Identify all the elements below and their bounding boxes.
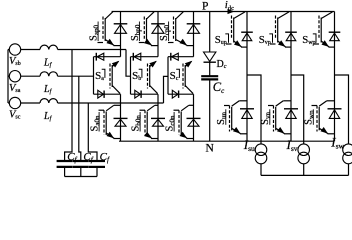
- label C_f 2: [83, 151, 93, 164]
- label L_f phase c: [43, 111, 53, 122]
- wire leg3 middle upper: [168, 56, 194, 58]
- wire source sb to inductor: [21, 49, 40, 51]
- diode leg3 top: [187, 24, 201, 34]
- capacitor C_f 3: [89, 161, 105, 167]
- label S_c: [170, 69, 180, 82]
- wire source sc to inductor: [21, 102, 40, 104]
- capacitor C_c: [201, 76, 218, 79]
- wire invleg2 output jog: [291, 75, 304, 145]
- igbt S_a0n: [99, 105, 121, 138]
- igbt S_ap0: [98, 12, 121, 46]
- inductor L_f phase a: [40, 72, 58, 76]
- voltage source V_sc: [9, 97, 20, 108]
- wire invleg1 output jog: [247, 75, 261, 145]
- diode invleg1 bottom: [240, 109, 254, 119]
- label P: [202, 0, 208, 12]
- diode leg2 top: [151, 24, 165, 34]
- diode invleg3 bottom: [328, 109, 342, 119]
- label S_bp0: [130, 22, 142, 42]
- label S_wn: [304, 109, 316, 125]
- igbt S_wn: [312, 101, 335, 134]
- diode leg2 middle upper: [133, 53, 141, 61]
- diode invleg2 top: [285, 32, 297, 41]
- current source I_su: [255, 144, 267, 164]
- label S_vp: [259, 34, 273, 47]
- capacitor C_f 1: [57, 161, 73, 167]
- wire phase c line: [58, 102, 164, 104]
- voltage source V_sa: [9, 71, 20, 82]
- label N: [206, 143, 215, 155]
- wire leg3 middle lower: [168, 93, 194, 95]
- diode D_c: [204, 52, 216, 62]
- wire cap tap phase a: [79, 76, 81, 160]
- label S_cp0: [159, 22, 171, 42]
- wire cap 3 bottom stub: [96, 168, 98, 177]
- wire invleg3 output jog: [335, 75, 349, 145]
- igbt S_wp: [314, 12, 335, 47]
- wire leg3 column bottom: [193, 94, 195, 141]
- diode leg3 bottom: [187, 118, 201, 126]
- label D_c: [217, 59, 227, 70]
- igbt S_un: [224, 101, 247, 134]
- label S_wp: [302, 34, 316, 47]
- wire source sa to inductor: [21, 75, 40, 77]
- wire cap 1 bottom stub: [64, 168, 66, 177]
- label C_f 1: [67, 151, 77, 164]
- wire cap 2 bottom stub: [80, 168, 82, 177]
- wire invleg1 column: [246, 12, 248, 142]
- wire phase b line: [58, 49, 126, 51]
- label S_c0n: [165, 112, 177, 132]
- wire load bottom rail: [261, 174, 349, 176]
- wire leg2 middle lower: [131, 93, 159, 95]
- wire leg2 middle left vertical: [130, 57, 132, 94]
- node P top rail: [112, 11, 335, 13]
- current idc arrow: [228, 9, 235, 14]
- igbt S_a: [110, 61, 120, 94]
- voltage source V_sb: [9, 44, 20, 55]
- diode invleg1 top: [241, 32, 253, 41]
- igbt S_c: [183, 61, 193, 94]
- igbt S_c0n: [174, 105, 194, 138]
- wire leg1 middle lower: [94, 93, 121, 95]
- current source I_sw: [343, 144, 352, 164]
- label S_up: [215, 34, 229, 47]
- wire leg1 column bottom: [120, 94, 122, 141]
- label V_sa: [9, 83, 21, 94]
- wire leg2 middle upper: [131, 56, 159, 58]
- wire cap tap phase b: [65, 50, 72, 161]
- diode leg2 middle lower: [135, 90, 141, 98]
- wire leg1 middle upper: [94, 56, 121, 58]
- igbt S_vp: [270, 12, 291, 47]
- igbt S_bp0: [139, 12, 158, 46]
- label S_b: [132, 69, 142, 82]
- wire filter cap star bar: [65, 176, 97, 178]
- wire load sv bottom stub: [303, 164, 305, 176]
- label I_su: [243, 137, 255, 153]
- diode invleg2 bottom: [284, 109, 298, 119]
- label S_un: [216, 109, 228, 125]
- wire leg2 column bottom: [157, 94, 159, 141]
- inductor L_f phase b: [40, 45, 58, 49]
- wire phase b jog down to leg2: [126, 50, 131, 77]
- wire load su bottom stub: [260, 164, 262, 176]
- node N bottom rail: [119, 140, 335, 142]
- label V_sb: [9, 56, 21, 67]
- wire leg3 middle left vertical: [167, 57, 169, 94]
- igbt S_b0n: [140, 105, 159, 138]
- label S_vn: [260, 109, 272, 125]
- diode leg1 middle lower: [98, 90, 104, 98]
- diode leg1 bottom: [114, 118, 128, 126]
- wire leg1 column top: [120, 12, 122, 57]
- wire phase c jog up to leg3: [164, 76, 169, 103]
- diode leg1 middle upper: [96, 53, 104, 61]
- label S_b0n: [131, 112, 143, 132]
- svg-text:P: P: [202, 0, 208, 12]
- label C_f 3: [100, 151, 110, 164]
- wire left source bus: [8, 50, 9, 104]
- label V_sc: [9, 110, 21, 121]
- current source I_sv: [298, 144, 310, 164]
- diode invleg3 top: [329, 32, 341, 41]
- label i_dc: [225, 0, 234, 11]
- diode leg1 top: [114, 24, 128, 34]
- igbt S_vn: [268, 101, 291, 134]
- wire invleg2 column: [290, 12, 292, 142]
- igbt S_cp0: [168, 12, 194, 46]
- wire phase a line: [58, 75, 94, 77]
- capacitor C_f 2: [73, 161, 89, 167]
- diode leg2 bottom: [151, 118, 165, 126]
- wire invleg3 column: [334, 12, 336, 142]
- diode leg3 middle upper: [171, 53, 179, 61]
- inductor L_f phase c: [40, 99, 58, 103]
- label C_c: [213, 80, 225, 95]
- label I_sw: [330, 135, 344, 151]
- wire clamp branch: [209, 12, 211, 142]
- wire load sw bottom stub: [348, 164, 350, 176]
- label L_f phase b: [43, 58, 53, 69]
- igbt S_b: [148, 61, 158, 94]
- label S_a: [95, 69, 105, 82]
- label S_a0n: [90, 112, 102, 132]
- svg-text:N: N: [206, 143, 215, 155]
- label S_ap0: [89, 22, 101, 42]
- label I_sv: [286, 137, 298, 153]
- wire cap tap phase c: [88, 103, 97, 160]
- wire leg3 column top: [193, 12, 195, 57]
- diode leg3 middle lower: [172, 90, 178, 98]
- igbt S_up: [226, 12, 247, 47]
- label L_f phase a: [43, 84, 53, 95]
- wire leg2 column top: [157, 12, 159, 57]
- wire leg1 middle left vertical: [93, 57, 95, 94]
